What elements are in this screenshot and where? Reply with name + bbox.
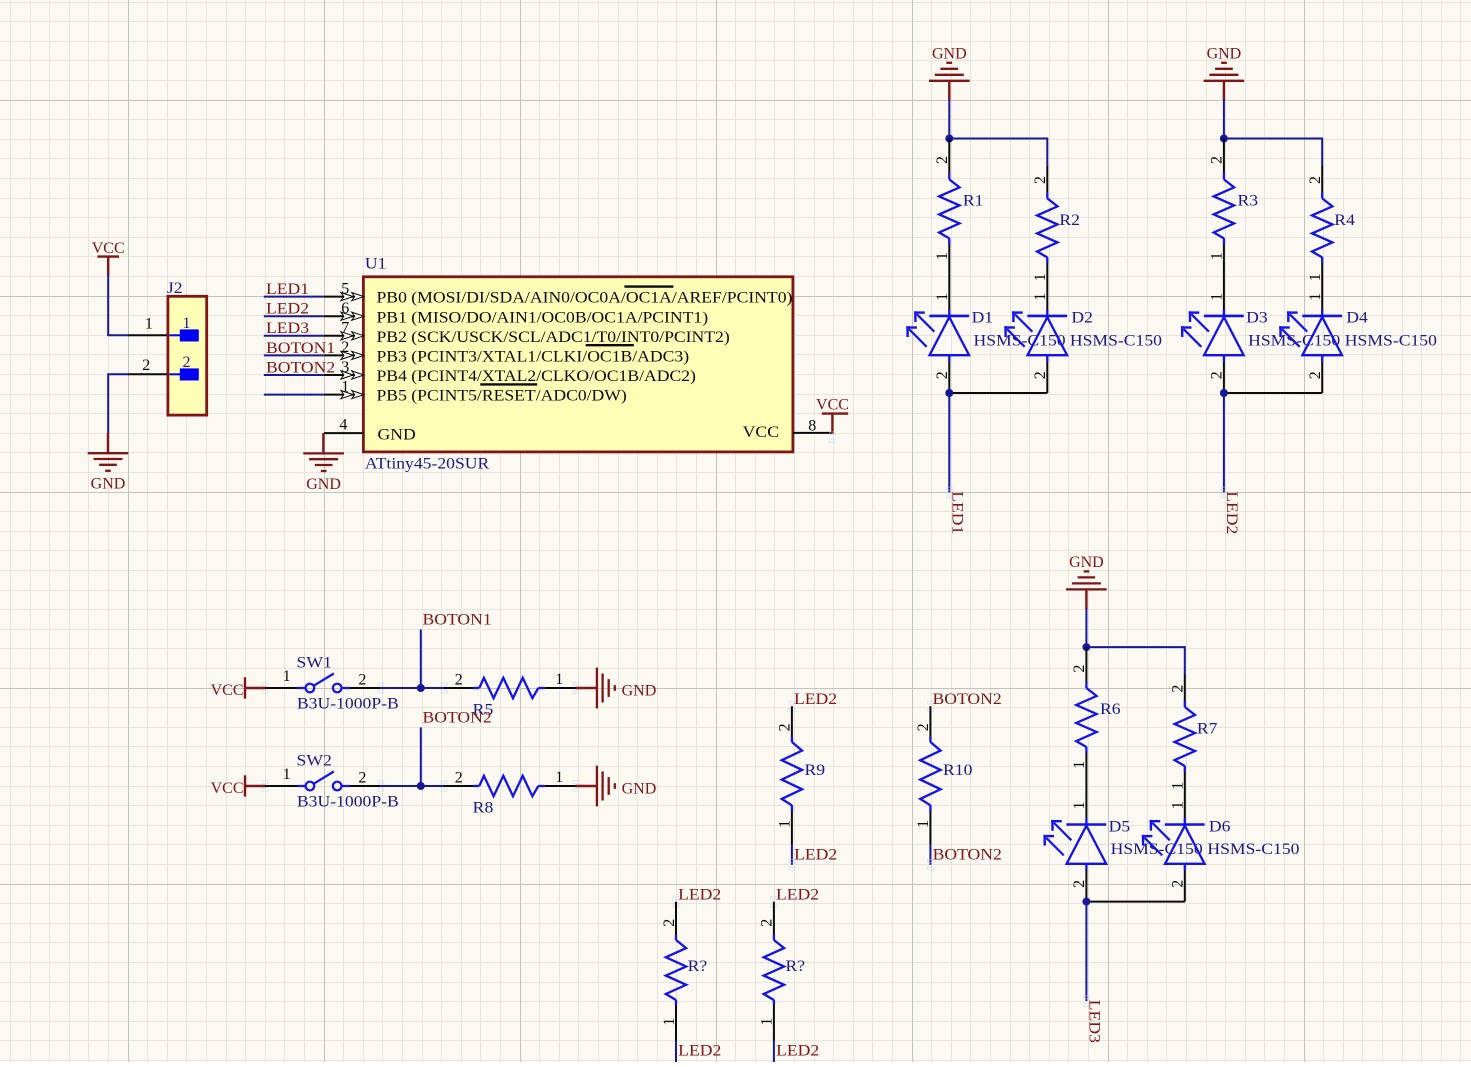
- diode D6 HSMS-C150: [1142, 784, 1300, 901]
- svg-text:1: 1: [555, 671, 563, 688]
- resistor R5: [444, 671, 576, 718]
- svg-text:2: 2: [759, 919, 776, 927]
- wire down to net label LED3: [1085, 902, 1087, 1001]
- svg-text:BOTON2: BOTON2: [266, 359, 335, 376]
- diode D4 HSMS-C150: [1279, 276, 1437, 393]
- svg-text:R2: R2: [1059, 212, 1080, 229]
- svg-text:1: 1: [1071, 802, 1088, 810]
- svg-text:D3: D3: [1246, 310, 1268, 327]
- svg-text:2: 2: [455, 672, 463, 689]
- resistor R1: [934, 139, 983, 277]
- overbar OC1B (PB3): [586, 344, 634, 346]
- svg-text:PB3 (PCINT3/XTAL1/CLKI/OC1B/AD: PB3 (PCINT3/XTAL1/CLKI/OC1B/ADC3): [377, 349, 690, 366]
- svg-text:GND: GND: [1069, 554, 1104, 571]
- svg-text:2: 2: [1032, 176, 1049, 184]
- resistor R?: [661, 902, 707, 1041]
- svg-text:VCC: VCC: [92, 240, 125, 257]
- svg-text:HSMS-C150: HSMS-C150: [1345, 333, 1437, 350]
- wire top branch: [949, 138, 1047, 140]
- J2 pin 2: [128, 373, 167, 375]
- svg-text:SW2: SW2: [297, 753, 332, 770]
- switch SW1 B3U-1000P-B: [297, 674, 350, 693]
- svg-text:D5: D5: [1109, 818, 1131, 835]
- svg-text:6: 6: [341, 300, 349, 317]
- wire bottom branch: [1086, 901, 1184, 903]
- wire up to net label BOTON2: [420, 727, 422, 786]
- resistor R3: [1209, 139, 1258, 277]
- svg-text:7: 7: [341, 320, 349, 337]
- wire gnd to junction: [1223, 100, 1225, 139]
- svg-text:2: 2: [1170, 685, 1187, 693]
- svg-text:LED2: LED2: [1223, 491, 1240, 534]
- U1 pin 4 GND: [324, 432, 364, 434]
- svg-text:PB1 (MISO/DO/AIN1/OC0B/OC1A/PC: PB1 (MISO/DO/AIN1/OC0B/OC1A/PCINT1): [377, 309, 709, 326]
- overbar RESET (PB5): [480, 383, 537, 385]
- svg-text:HSMS-C150: HSMS-C150: [1207, 841, 1299, 858]
- wire GND to J2 pin 2: [107, 373, 128, 375]
- svg-text:BOTON1: BOTON1: [423, 612, 492, 629]
- power port VCC (SW1 row): [211, 677, 266, 699]
- power port VCC (top left): [92, 240, 125, 276]
- svg-text:2: 2: [1307, 371, 1324, 379]
- svg-text:R?: R?: [688, 958, 708, 975]
- svg-text:ATtiny45-20SUR: ATtiny45-20SUR: [365, 455, 490, 472]
- svg-text:1: 1: [1032, 293, 1049, 301]
- junction top: [1220, 135, 1228, 143]
- svg-text:2: 2: [358, 672, 366, 689]
- svg-text:PB4 (PCINT4/XTAL2/CLKO/OC1B/AD: PB4 (PCINT4/XTAL2/CLKO/OC1B/ADC2): [377, 368, 696, 385]
- svg-text:LED2: LED2: [678, 1042, 721, 1059]
- U1 pin 2 (PB3): [264, 354, 324, 356]
- svg-text:1: 1: [915, 820, 932, 828]
- wire junction to resistor: [421, 785, 444, 787]
- svg-text:J2: J2: [167, 280, 183, 297]
- svg-text:LED2: LED2: [678, 886, 721, 903]
- wire up to net label BOTON1: [420, 629, 422, 688]
- diode D3 HSMS-C150: [1181, 276, 1340, 393]
- svg-text:2: 2: [934, 156, 951, 164]
- ground (SW1 row): [576, 687, 597, 689]
- U1 pin 8 VCC: [793, 432, 833, 434]
- svg-text:2: 2: [358, 770, 366, 787]
- svg-text:R1: R1: [963, 193, 984, 210]
- U1 pin 7 (PB2): [264, 335, 324, 337]
- svg-text:D1: D1: [972, 310, 994, 327]
- wire top branch: [1086, 646, 1184, 648]
- svg-text:VCC: VCC: [211, 780, 244, 797]
- svg-text:GND: GND: [306, 476, 341, 493]
- svg-text:R10: R10: [943, 762, 972, 779]
- resistor R6: [1071, 647, 1120, 785]
- svg-text:PB0 (MOSI/DI/SDA/AIN0/OC0A/OC1: PB0 (MOSI/DI/SDA/AIN0/OC0A/OC1A/AREF/PCI…: [377, 290, 793, 307]
- svg-text:D6: D6: [1209, 818, 1231, 835]
- ground (LED2 circuit): [1223, 81, 1225, 101]
- junction bottom: [1082, 898, 1090, 906]
- switch SW2 B3U-1000P-B: [297, 772, 350, 791]
- svg-text:1: 1: [183, 315, 191, 332]
- svg-text:LED3: LED3: [1085, 1000, 1102, 1043]
- svg-text:GND: GND: [91, 476, 126, 493]
- svg-text:1: 1: [1209, 293, 1226, 301]
- wire switch to junction: [381, 785, 421, 787]
- junction top: [1082, 643, 1090, 651]
- diode D2 HSMS-C150: [1004, 276, 1162, 393]
- svg-text:2: 2: [1071, 880, 1088, 888]
- junction top: [945, 135, 953, 143]
- wire to net label LED2: [791, 845, 793, 865]
- resistor R9: [777, 706, 825, 844]
- J2 pin 1: [128, 334, 167, 336]
- svg-text:1: 1: [145, 315, 153, 332]
- switch SW2 pin 1: [265, 785, 297, 787]
- svg-text:BOTON2: BOTON2: [423, 710, 492, 727]
- svg-text:1: 1: [777, 820, 794, 828]
- svg-text:1: 1: [1307, 293, 1324, 301]
- ground (LED1 circuit): [948, 81, 950, 101]
- svg-text:2: 2: [1032, 371, 1049, 379]
- svg-text:1: 1: [283, 766, 291, 783]
- wire down to net label LED1: [948, 393, 950, 492]
- svg-text:2: 2: [777, 723, 794, 731]
- wire VCC to J2 pin 1: [107, 274, 109, 335]
- U1 pin 3 (PB4): [264, 374, 324, 376]
- svg-text:HSMS-C150: HSMS-C150: [1070, 333, 1162, 350]
- svg-text:B3U-1000P-B: B3U-1000P-B: [297, 794, 399, 811]
- svg-text:R3: R3: [1238, 193, 1259, 210]
- svg-text:2: 2: [915, 723, 932, 731]
- ground (U1 pin 4): [322, 433, 324, 453]
- wire to net label LED2: [675, 1041, 677, 1063]
- svg-text:LED2: LED2: [794, 847, 837, 864]
- wire down to net label LED2: [1223, 393, 1225, 492]
- svg-text:2: 2: [1307, 176, 1324, 184]
- junction (BOTON2): [417, 782, 425, 790]
- wire gnd to junction: [1085, 608, 1087, 647]
- svg-text:R6: R6: [1100, 701, 1121, 718]
- svg-text:LED3: LED3: [266, 320, 309, 337]
- svg-text:BOTON1: BOTON1: [266, 340, 335, 357]
- svg-text:VCC: VCC: [743, 424, 779, 441]
- junction (BOTON1): [417, 684, 425, 692]
- svg-text:2: 2: [1071, 665, 1088, 673]
- svg-text:1: 1: [555, 769, 563, 786]
- svg-text:R4: R4: [1334, 212, 1355, 229]
- svg-text:2: 2: [1209, 156, 1226, 164]
- svg-text:B3U-1000P-B: B3U-1000P-B: [297, 696, 399, 713]
- svg-text:2: 2: [661, 919, 678, 927]
- svg-text:GND: GND: [1207, 45, 1242, 62]
- svg-text:R8: R8: [473, 799, 494, 816]
- svg-text:R?: R?: [786, 958, 806, 975]
- svg-text:1: 1: [934, 293, 951, 301]
- svg-text:PB2 (SCK/USCK/SCL/ADC1/T0/INT0: PB2 (SCK/USCK/SCL/ADC1/T0/INT0/PCINT2): [377, 329, 730, 346]
- U1 pin 5 (PB0): [264, 296, 324, 298]
- overbar OC1A (PB0): [624, 285, 673, 287]
- svg-text:1: 1: [341, 378, 349, 395]
- svg-text:PB5 (PCINT5/RESET/ADC0/DW): PB5 (PCINT5/RESET/ADC0/DW): [377, 388, 627, 405]
- svg-text:4: 4: [339, 416, 347, 433]
- wire to net label LED2: [773, 1041, 775, 1063]
- svg-text:SW1: SW1: [297, 655, 332, 672]
- wire switch to junction: [381, 687, 421, 689]
- wire gnd to junction: [948, 100, 950, 139]
- svg-text:U1: U1: [365, 256, 387, 273]
- wire bottom branch: [1224, 392, 1322, 394]
- power port VCC (SW2 row): [211, 775, 266, 797]
- IC U1 body: [363, 277, 793, 452]
- svg-text:1: 1: [1071, 761, 1088, 769]
- switch SW1 pin 2: [350, 687, 381, 689]
- wire bottom branch: [949, 392, 1047, 394]
- wire to net label BOTON2: [929, 845, 931, 865]
- resistor R8: [444, 769, 576, 816]
- connector J2: [167, 280, 207, 415]
- svg-text:D2: D2: [1071, 310, 1093, 327]
- svg-text:R9: R9: [805, 762, 826, 779]
- svg-text:1: 1: [1170, 801, 1187, 809]
- svg-text:LED2: LED2: [794, 691, 837, 708]
- svg-text:R7: R7: [1197, 721, 1218, 738]
- svg-text:GND: GND: [378, 427, 416, 444]
- resistor R2: [1032, 166, 1080, 281]
- svg-text:LED1: LED1: [266, 281, 309, 298]
- svg-text:3: 3: [341, 359, 349, 376]
- power port VCC (U1 pin 8): [816, 397, 849, 434]
- wire top branch: [1224, 138, 1322, 140]
- svg-text:VCC: VCC: [211, 682, 244, 699]
- resistor R?: [759, 902, 805, 1041]
- resistor R7: [1170, 675, 1218, 790]
- svg-text:BOTON2: BOTON2: [933, 691, 1002, 708]
- svg-text:1: 1: [283, 668, 291, 685]
- junction bottom: [945, 389, 953, 397]
- svg-text:BOTON2: BOTON2: [933, 847, 1002, 864]
- svg-text:D4: D4: [1346, 310, 1368, 327]
- ground (SW2 row): [576, 785, 597, 787]
- svg-text:LED2: LED2: [776, 886, 819, 903]
- diode D5 HSMS-C150: [1043, 784, 1202, 901]
- svg-text:GND: GND: [932, 45, 967, 62]
- svg-text:1: 1: [1209, 252, 1226, 260]
- svg-text:2: 2: [934, 371, 951, 379]
- U1 pin 1 (PB5): [264, 394, 324, 396]
- svg-text:1: 1: [759, 1018, 776, 1026]
- svg-text:2: 2: [1170, 880, 1187, 888]
- ground (below J2 circuit): [107, 433, 109, 454]
- svg-text:LED2: LED2: [266, 301, 309, 318]
- wire junction to resistor: [421, 687, 444, 689]
- diode D1 HSMS-C150: [906, 276, 1065, 393]
- switch SW2 pin 2: [350, 785, 381, 787]
- svg-text:2: 2: [341, 339, 349, 356]
- switch SW1 pin 1: [265, 687, 297, 689]
- svg-text:1: 1: [661, 1018, 678, 1026]
- svg-text:GND: GND: [622, 780, 657, 797]
- U1 pin 6 (PB1): [264, 315, 324, 317]
- junction bottom: [1220, 389, 1228, 397]
- resistor R4: [1307, 166, 1355, 281]
- svg-text:8: 8: [808, 417, 816, 434]
- svg-text:LED2: LED2: [776, 1042, 819, 1059]
- svg-text:GND: GND: [622, 682, 657, 699]
- svg-text:VCC: VCC: [816, 397, 849, 414]
- svg-text:1: 1: [934, 252, 951, 260]
- ground (LED3 circuit): [1085, 589, 1087, 609]
- svg-text:LED1: LED1: [948, 491, 965, 534]
- svg-text:2: 2: [142, 357, 150, 374]
- svg-text:2: 2: [183, 354, 191, 371]
- resistor R10: [915, 706, 972, 844]
- svg-text:5: 5: [341, 280, 349, 297]
- svg-text:2: 2: [1209, 371, 1226, 379]
- svg-text:2: 2: [455, 770, 463, 787]
